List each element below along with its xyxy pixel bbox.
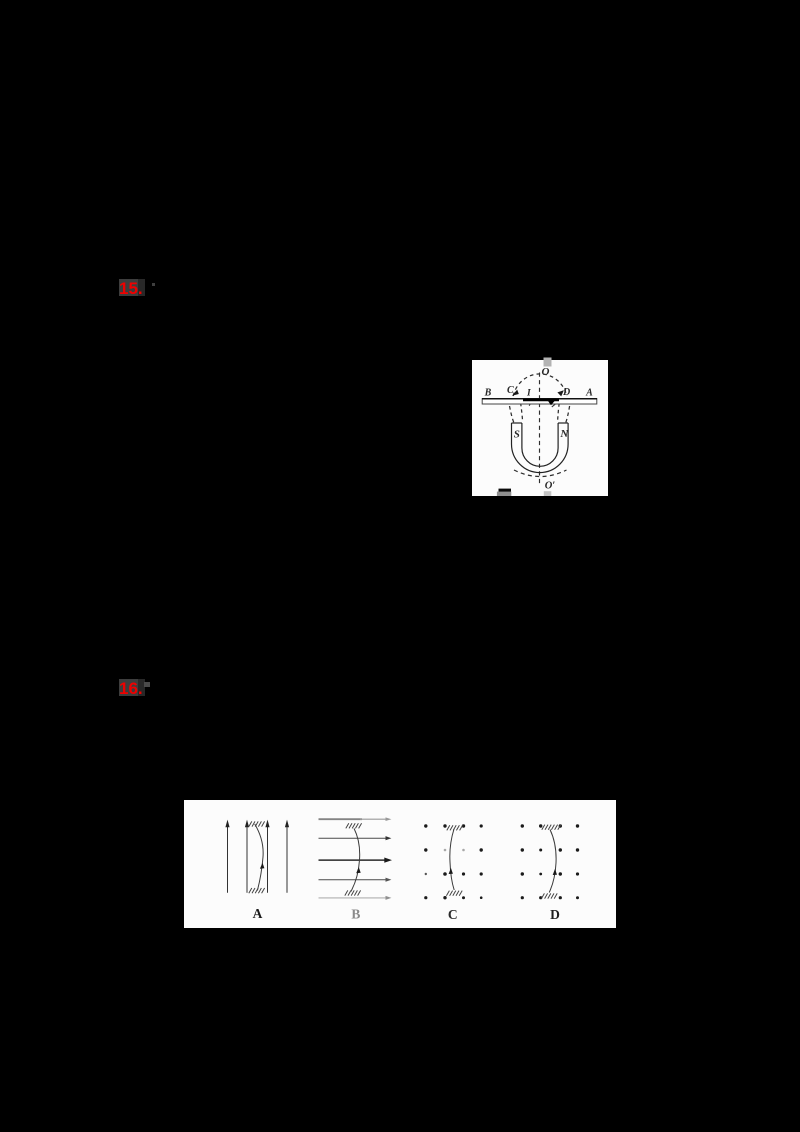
B field line 1 bbox=[319, 817, 392, 821]
small dash below rod right of center bbox=[552, 403, 556, 407]
svg-text:A: A bbox=[585, 388, 593, 399]
dashed rotation arc upper bbox=[513, 374, 567, 396]
B field line 3 bbox=[319, 858, 393, 863]
question number 15 bbox=[119, 279, 145, 299]
A field line 4 bbox=[285, 820, 289, 893]
rod top edge emphasis bbox=[482, 398, 597, 400]
B field line 5 bbox=[319, 896, 392, 900]
magnet pole face N bbox=[558, 422, 568, 424]
arc arrowhead at C bbox=[512, 390, 519, 396]
svg-text:O: O bbox=[542, 366, 550, 378]
scan artifact black bar bottom left bbox=[499, 489, 512, 493]
A field line 2 bbox=[245, 820, 249, 893]
svg-text:O′: O′ bbox=[545, 481, 556, 492]
svg-text:A: A bbox=[253, 906, 263, 921]
A top hatch anchor bbox=[249, 821, 265, 826]
svg-text:B: B bbox=[484, 388, 492, 399]
small dash below rod near I bbox=[529, 401, 532, 406]
C bottom hatch anchor bbox=[446, 891, 462, 896]
A wire bbox=[255, 824, 263, 891]
svg-text:D: D bbox=[562, 387, 570, 398]
arc arrowhead at D bbox=[557, 390, 563, 396]
magnet inner outline bbox=[522, 423, 558, 466]
question number 16 highlight box dark right part bbox=[138, 679, 145, 696]
dashed arc right inner below rod bbox=[558, 404, 560, 422]
B top hatch anchor bbox=[346, 823, 362, 828]
dashed arc left inner below rod bbox=[521, 403, 523, 421]
C dot grid bbox=[424, 824, 483, 899]
scan artifact gray block bottom center bbox=[544, 491, 552, 496]
B wire current arrow bbox=[356, 867, 361, 873]
dashed rotation arc bottom bbox=[514, 470, 567, 477]
magnet pole face S bbox=[512, 422, 522, 424]
question number 15 highlight box dark right part bbox=[138, 279, 145, 296]
B field line 2 bbox=[319, 836, 392, 840]
D dot grid bbox=[521, 824, 580, 899]
dashed arc left outer below rod bbox=[510, 406, 514, 423]
B wire bbox=[351, 828, 360, 891]
scan artifact gray band top bbox=[544, 358, 552, 367]
C top hatch anchor bbox=[447, 825, 463, 830]
figure 2 white background bbox=[184, 800, 616, 928]
A bottom hatch anchor bbox=[249, 888, 265, 893]
A field line 3 bbox=[265, 820, 269, 893]
svg-text:N: N bbox=[559, 428, 569, 440]
B field line 4 bbox=[319, 878, 392, 882]
D wire bbox=[549, 830, 556, 893]
svg-text:S: S bbox=[514, 429, 520, 441]
D bottom hatch anchor bbox=[541, 893, 557, 898]
question number 16 bbox=[119, 679, 145, 699]
svg-text:C: C bbox=[448, 907, 458, 922]
magnet outer outline bbox=[512, 423, 569, 473]
figure 1 white background bbox=[472, 360, 608, 496]
dashed axis OO' bbox=[539, 373, 541, 485]
D top hatch anchor bbox=[542, 825, 561, 830]
B bottom hatch anchor bbox=[345, 890, 361, 895]
svg-text:B: B bbox=[351, 907, 360, 922]
figure 2: four answer diagrams bbox=[184, 800, 616, 928]
scan artifact gray block bottom left bbox=[497, 492, 511, 496]
A field line 1 bbox=[225, 820, 229, 893]
C wire bbox=[450, 829, 454, 890]
figure 1: rod over horseshoe magnet bbox=[472, 356, 608, 496]
A wire current arrow bbox=[260, 863, 265, 869]
svg-text:D: D bbox=[550, 907, 560, 922]
speck right of 16 bbox=[144, 682, 150, 687]
C wire current arrow bbox=[449, 868, 453, 874]
dashed arc right outer below rod bbox=[566, 406, 570, 423]
current segment thick bbox=[523, 399, 559, 402]
speck right of 15 bbox=[152, 283, 156, 287]
rod BA bbox=[482, 399, 597, 404]
svg-text:C: C bbox=[507, 385, 514, 396]
svg-text:I: I bbox=[526, 389, 531, 399]
current arrowhead solid bbox=[547, 399, 557, 405]
D wire current arrow bbox=[553, 869, 557, 875]
question number 16 highlight box bbox=[119, 679, 138, 696]
question number 15 highlight box bbox=[119, 279, 138, 296]
